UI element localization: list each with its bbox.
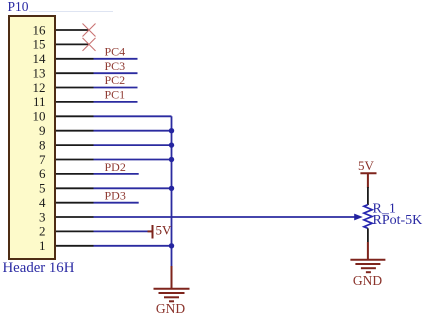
power port 5V (bar) above potentiometer	[360, 173, 376, 188]
svg-text:13: 13	[33, 66, 46, 81]
wire pin8 to bus	[94, 144, 172, 146]
no-connect X pin 15	[83, 38, 96, 51]
wire net PD2	[94, 173, 139, 175]
wire pin3 to potentiometer wiper	[94, 216, 356, 218]
pin 2	[39, 224, 94, 239]
svg-text:10: 10	[33, 109, 46, 124]
pin 15	[33, 37, 89, 52]
junction pin5	[169, 186, 174, 191]
svg-text:12: 12	[33, 80, 46, 95]
pin 7	[39, 152, 94, 167]
svg-text:9: 9	[39, 123, 46, 138]
svg-text:6: 6	[39, 166, 46, 181]
pin 4	[39, 195, 94, 210]
ground GND (right power ground)	[350, 242, 385, 272]
wire pin5 to bus	[94, 187, 172, 189]
no-connect X pin 16	[83, 24, 96, 37]
pin 12	[33, 80, 94, 95]
ground GND (left power ground)	[154, 266, 190, 301]
svg-text:16: 16	[33, 22, 47, 37]
wire pin9 to bus	[94, 130, 172, 132]
svg-text:7: 7	[39, 152, 46, 167]
svg-text:4: 4	[39, 195, 46, 210]
svg-text:PC4: PC4	[105, 45, 126, 59]
pin 1	[39, 238, 94, 253]
potentiometer R_1 body	[364, 205, 372, 229]
pin 10	[33, 109, 94, 124]
junction pin7	[169, 157, 174, 162]
potentiometer R_1 pin 3 (bottom)	[367, 228, 369, 242]
pin 6	[39, 166, 94, 181]
svg-text:Header 16H: Header 16H	[3, 260, 75, 276]
svg-text:5V: 5V	[156, 223, 173, 238]
svg-text:PD3: PD3	[105, 189, 126, 203]
wire pin2 to 5V	[94, 230, 148, 232]
wire net PC2	[94, 87, 138, 89]
potentiometer wiper arrow	[354, 214, 363, 221]
svg-text:GND: GND	[353, 273, 382, 288]
wire pin1 to bus	[94, 245, 172, 247]
pin 14	[33, 51, 94, 66]
svg-text:PC3: PC3	[105, 59, 126, 73]
svg-text:2: 2	[39, 224, 46, 239]
svg-text:1: 1	[39, 238, 46, 253]
selection underline artifact	[29, 11, 113, 13]
pin 9	[39, 123, 94, 138]
svg-text:GND: GND	[156, 301, 185, 316]
potentiometer R_1 pin 1 (top)	[367, 187, 369, 205]
junction pin1	[169, 243, 174, 248]
svg-text:PC1: PC1	[105, 88, 126, 102]
svg-text:11: 11	[33, 94, 46, 109]
junction pin8	[169, 142, 174, 147]
svg-text:3: 3	[39, 209, 46, 224]
connector P10 body	[9, 16, 55, 259]
svg-text:P10: P10	[8, 0, 29, 14]
junction pin9	[169, 128, 174, 133]
wire pin7 to bus	[94, 159, 172, 161]
pin 11	[33, 94, 94, 109]
power port 5V (bar) on pin 2	[148, 225, 153, 239]
pin 3	[39, 209, 94, 224]
wire net PD3	[94, 202, 139, 204]
pin 8	[39, 137, 94, 152]
wire vertical bus	[171, 116, 173, 266]
svg-text:5: 5	[39, 181, 46, 196]
wire net PC3	[94, 72, 138, 74]
svg-text:PD2: PD2	[105, 160, 126, 174]
svg-text:15: 15	[33, 37, 46, 52]
pin 16	[33, 22, 89, 37]
pin 13	[33, 66, 94, 81]
svg-text:8: 8	[39, 137, 46, 152]
wire pin10 to bus	[94, 115, 172, 117]
svg-text:14: 14	[33, 51, 47, 66]
svg-text:PC2: PC2	[105, 73, 126, 87]
pin 5	[39, 181, 94, 196]
svg-text:5V: 5V	[358, 158, 375, 173]
wire net PC1	[94, 101, 138, 103]
svg-text:RPot-5K: RPot-5K	[373, 213, 423, 228]
wire net PC4	[94, 58, 138, 60]
